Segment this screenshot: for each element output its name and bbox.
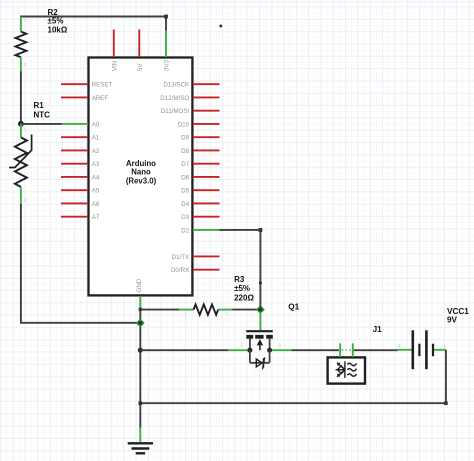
svg-text:A0: A0 (92, 121, 100, 128)
svg-text:5V: 5V (137, 63, 144, 71)
svg-text:A4: A4 (92, 174, 100, 181)
svg-text:2: 2 (279, 343, 282, 348)
svg-text:D2: D2 (181, 227, 189, 234)
svg-text:A3: A3 (92, 161, 100, 168)
svg-text:R3: R3 (234, 275, 245, 284)
svg-text:Nano: Nano (131, 168, 151, 177)
svg-text:D1/TX: D1/TX (172, 254, 190, 261)
svg-text:D13/SCK: D13/SCK (163, 82, 190, 89)
svg-text:D11/MOSI: D11/MOSI (161, 108, 190, 115)
svg-text:D7: D7 (181, 161, 189, 168)
svg-text:2: 2 (226, 312, 229, 317)
svg-text:±5%: ±5% (234, 284, 250, 293)
svg-text:3V3: 3V3 (164, 60, 171, 72)
svg-text:RESET: RESET (92, 82, 113, 89)
svg-text:GND: GND (136, 278, 143, 292)
svg-text:1: 1 (24, 18, 27, 23)
svg-text:D3: D3 (181, 214, 189, 221)
svg-text:D5: D5 (181, 188, 189, 195)
svg-text:D8: D8 (181, 148, 189, 155)
svg-text:1: 1 (24, 127, 27, 132)
svg-text:A6: A6 (92, 201, 100, 208)
svg-text:1: 1 (443, 343, 446, 348)
svg-text:NTC: NTC (34, 111, 51, 120)
svg-text:AREF: AREF (92, 95, 109, 102)
svg-text:1: 1 (184, 312, 187, 317)
svg-text:A1: A1 (92, 135, 100, 142)
svg-text:10kΩ: 10kΩ (48, 25, 68, 34)
svg-text:A5: A5 (92, 188, 100, 195)
svg-text:D9: D9 (181, 135, 189, 142)
svg-text:(Rev3.0): (Rev3.0) (126, 176, 157, 185)
svg-text:220Ω: 220Ω (234, 293, 254, 302)
svg-text:2: 2 (24, 198, 27, 203)
svg-text:D10: D10 (178, 121, 190, 128)
svg-text:J1: J1 (373, 325, 383, 334)
svg-text:D6: D6 (181, 174, 189, 181)
svg-text:R1: R1 (34, 101, 45, 110)
svg-text:Arduino: Arduino (126, 159, 156, 168)
svg-text:±5%: ±5% (48, 17, 64, 26)
svg-text:A7: A7 (92, 214, 100, 221)
svg-text:D12/MISO: D12/MISO (160, 95, 189, 102)
svg-text:D0/RX: D0/RX (171, 267, 189, 274)
svg-text:Q1: Q1 (288, 302, 299, 311)
svg-text:2: 2 (24, 62, 27, 67)
svg-text:VIN: VIN (111, 61, 118, 71)
svg-text:2: 2 (398, 343, 401, 348)
svg-text:3: 3 (240, 343, 243, 348)
svg-text:D4: D4 (181, 201, 189, 208)
svg-text:9V: 9V (447, 316, 458, 325)
svg-text:A2: A2 (92, 148, 100, 155)
